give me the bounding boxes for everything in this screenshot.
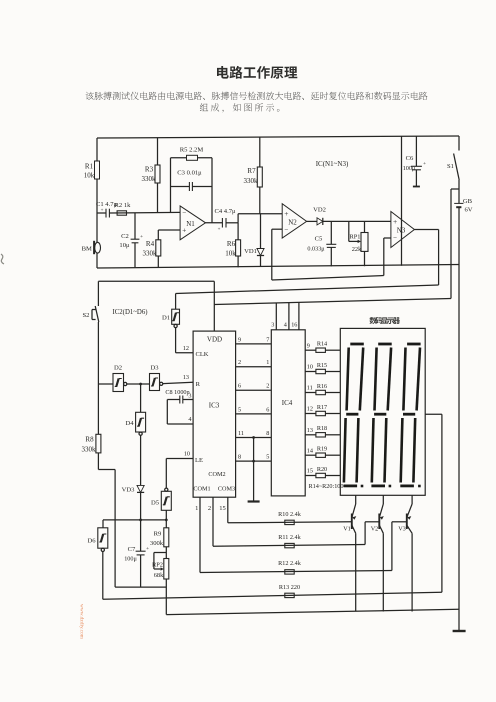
capacitor C5 bbox=[307, 221, 336, 266]
svg-text:LE: LE bbox=[195, 457, 203, 464]
svg-text:C6: C6 bbox=[406, 155, 414, 162]
potentiometer RP1 bbox=[349, 221, 368, 266]
svg-text:C2: C2 bbox=[121, 233, 129, 240]
svg-text:300k: 300k bbox=[150, 540, 164, 547]
svg-text:10: 10 bbox=[307, 364, 313, 371]
display digit 3 bbox=[400, 344, 420, 486]
svg-text:R14~R20:100: R14~R20:100 bbox=[309, 483, 344, 490]
svg-text:RP1: RP1 bbox=[349, 234, 360, 241]
svg-text:15: 15 bbox=[307, 468, 313, 475]
svg-text:RP2: RP2 bbox=[152, 562, 163, 569]
diode VD3 bbox=[122, 435, 145, 520]
supply vertical line bbox=[401, 137, 403, 266]
resistor R3 bbox=[142, 138, 161, 213]
svg-text:10μ: 10μ bbox=[119, 242, 130, 249]
resistor R20 bbox=[305, 475, 316, 477]
battery GB 6V bbox=[454, 198, 473, 214]
svg-text:100μ: 100μ bbox=[124, 556, 137, 563]
svg-text:IC3: IC3 bbox=[209, 402, 220, 410]
resistor R11 bbox=[285, 543, 294, 547]
resistor R17 bbox=[305, 413, 316, 415]
schmitt D2 bbox=[98, 365, 126, 392]
microphone HM bbox=[82, 241, 101, 254]
svg-text:V1: V1 bbox=[343, 526, 351, 533]
wire R8 bottom jog bbox=[98, 469, 115, 471]
svg-text:R7: R7 bbox=[247, 167, 256, 175]
svg-text:www.dzdiy.com: www.dzdiy.com bbox=[79, 604, 85, 640]
potentiometer RP2 bbox=[152, 553, 169, 615]
wire D2 to D3 bbox=[127, 383, 150, 385]
svg-text:GB: GB bbox=[463, 198, 473, 205]
wire D1 input bbox=[175, 294, 177, 310]
wire C8 loop to pin 4 bbox=[166, 400, 168, 425]
svg-text:+: + bbox=[140, 234, 143, 240]
svg-text:IC(N1~N3): IC(N1~N3) bbox=[316, 160, 349, 168]
svg-text:IC2(D1~D6): IC2(D1~D6) bbox=[112, 309, 147, 316]
svg-text:15: 15 bbox=[219, 505, 226, 512]
svg-text:D3: D3 bbox=[150, 365, 159, 372]
switch S2 bbox=[83, 281, 99, 322]
svg-text:R20: R20 bbox=[317, 466, 327, 473]
svg-text:+: + bbox=[101, 209, 104, 214]
wire display dp pin to R13 bbox=[425, 413, 442, 415]
svg-text:11: 11 bbox=[307, 385, 313, 392]
schmitt D5 bbox=[151, 488, 171, 510]
op-amp N2 bbox=[282, 204, 306, 238]
svg-text:R10 2.4k: R10 2.4k bbox=[278, 511, 302, 518]
svg-text:D1: D1 bbox=[162, 315, 170, 322]
resistor R2 bbox=[115, 202, 132, 215]
svg-text:2: 2 bbox=[208, 505, 211, 512]
svg-text:330k: 330k bbox=[143, 250, 158, 258]
svg-text:D4: D4 bbox=[125, 420, 134, 427]
svg-text:R1: R1 bbox=[85, 163, 94, 171]
svg-text:R8: R8 bbox=[85, 436, 94, 444]
capacitor C2 bbox=[119, 213, 143, 267]
svg-text:R4: R4 bbox=[146, 240, 155, 248]
wire N1 output bbox=[206, 222, 223, 224]
wire VD2 to N3 plus bbox=[323, 220, 391, 222]
svg-text:330k: 330k bbox=[82, 446, 97, 454]
diode VD1 bbox=[244, 214, 264, 267]
wire N3 minus vertical bbox=[383, 238, 385, 276]
svg-text:100μ: 100μ bbox=[403, 165, 416, 172]
wire right rail lower bbox=[458, 207, 460, 631]
wire D3 to R pin bbox=[163, 382, 193, 383]
svg-text:22k: 22k bbox=[352, 246, 362, 253]
transistor V2 bbox=[371, 495, 384, 611]
svg-text:3: 3 bbox=[271, 322, 274, 329]
svg-text:N1: N1 bbox=[186, 220, 195, 228]
svg-text:R13 220: R13 220 bbox=[279, 584, 300, 591]
capacitor C3 bbox=[171, 170, 213, 192]
svg-text:13: 13 bbox=[183, 374, 189, 381]
svg-text:13: 13 bbox=[307, 427, 313, 434]
schmitt D1 bbox=[162, 309, 180, 327]
svg-text:COM1: COM1 bbox=[193, 486, 210, 493]
wire top supply rail bbox=[97, 136, 459, 138]
svg-text:S2: S2 bbox=[83, 312, 90, 319]
wire feedback rail bbox=[272, 276, 384, 281]
display box 数码显示器 bbox=[340, 328, 425, 495]
IC IC4 bbox=[271, 330, 305, 496]
svg-text:−: − bbox=[393, 234, 397, 242]
svg-text:C3 0.01μ: C3 0.01μ bbox=[177, 170, 202, 177]
wire LE pin bbox=[166, 458, 193, 460]
svg-text:330k: 330k bbox=[142, 175, 157, 183]
svg-text:VD2: VD2 bbox=[313, 207, 326, 214]
resistor R10 bbox=[285, 520, 294, 524]
svg-text:R17: R17 bbox=[317, 404, 327, 411]
wire S1 to VDD rail bbox=[451, 188, 459, 190]
resistor R19 bbox=[305, 454, 316, 456]
svg-text:8: 8 bbox=[266, 430, 269, 437]
IC4 top pin 4 bbox=[288, 303, 290, 330]
svg-text:5: 5 bbox=[238, 406, 241, 413]
svg-text:R: R bbox=[196, 381, 201, 388]
resistor R6 bbox=[225, 223, 240, 267]
svg-text:D6: D6 bbox=[87, 538, 96, 545]
svg-text:COM3: COM3 bbox=[218, 486, 235, 493]
svg-text:4: 4 bbox=[188, 416, 191, 423]
wire N2 output bbox=[307, 220, 317, 222]
IC3 bottom pin 2 bbox=[212, 497, 214, 546]
IC4 top pin 16 bbox=[298, 302, 300, 329]
IC4 top pin 3 bbox=[275, 303, 277, 330]
ground IC3 pins 11 8 bbox=[252, 436, 255, 439]
wire R12 line bbox=[200, 571, 392, 573]
svg-text:10: 10 bbox=[184, 451, 190, 458]
IC3 bottom pin 1 bbox=[199, 497, 201, 572]
feedback loop wires bbox=[170, 158, 172, 212]
display digit 1 bbox=[344, 344, 364, 486]
wire N1 plus input bbox=[158, 229, 180, 231]
schmitt D3 bbox=[150, 365, 163, 391]
svg-text:N2: N2 bbox=[288, 219, 297, 227]
capacitor C6 bbox=[403, 137, 426, 187]
schmitt D4 bbox=[125, 384, 145, 435]
text dsp bbox=[370, 317, 401, 324]
svg-text:1: 1 bbox=[266, 359, 269, 366]
svg-text:D2: D2 bbox=[114, 365, 122, 372]
IC IC3 bbox=[193, 331, 236, 497]
wire C4 to N2 bbox=[226, 222, 238, 224]
op-amp N1 bbox=[180, 206, 205, 240]
wire VDD left branch bbox=[98, 280, 214, 282]
svg-text:R15: R15 bbox=[317, 362, 327, 369]
svg-text:CLK: CLK bbox=[196, 351, 209, 358]
wire IC3 pin 11 to IC4 pin 8 bbox=[236, 437, 272, 439]
svg-text:R3: R3 bbox=[145, 166, 154, 174]
svg-text:8: 8 bbox=[238, 454, 241, 461]
svg-text:D5: D5 bbox=[151, 500, 160, 507]
wire R8C7 junction line bbox=[115, 586, 166, 588]
resistor R14 bbox=[305, 349, 316, 351]
svg-text:R11 2.4k: R11 2.4k bbox=[278, 534, 301, 541]
diode VD2 bbox=[313, 207, 326, 226]
resistor R13 bbox=[285, 593, 294, 597]
wire R13 line bbox=[102, 552, 104, 600]
wire right rail upper bbox=[458, 180, 460, 203]
wire emitter ground rail bbox=[166, 609, 459, 614]
svg-text:330k: 330k bbox=[244, 177, 259, 185]
wire input line y=213 bbox=[97, 212, 106, 214]
svg-text:4: 4 bbox=[284, 322, 287, 329]
display dot 1 bbox=[361, 485, 364, 488]
svg-text:0.033μ: 0.033μ bbox=[307, 246, 325, 253]
svg-text:6: 6 bbox=[266, 406, 269, 413]
op-amp N3 bbox=[391, 212, 415, 248]
svg-text:−: − bbox=[182, 209, 186, 217]
svg-text:+: + bbox=[284, 209, 288, 218]
svg-text:+: + bbox=[218, 228, 221, 233]
capacitor C8 bbox=[165, 389, 189, 404]
display dot 2 bbox=[389, 485, 392, 488]
wire zero rail bbox=[97, 265, 459, 269]
wire R11 line bbox=[213, 545, 365, 547]
svg-text:C4 4.7μ: C4 4.7μ bbox=[214, 208, 236, 215]
svg-text:R2 1k: R2 1k bbox=[115, 202, 132, 209]
resistor R16 bbox=[305, 392, 316, 394]
wire N3 output loop to D1 bbox=[414, 229, 438, 231]
wire S2 down bbox=[97, 322, 99, 384]
text para1 bbox=[86, 92, 428, 100]
transistor V3 bbox=[398, 495, 412, 611]
resistor R1 bbox=[84, 161, 100, 180]
svg-text:16: 16 bbox=[291, 322, 297, 329]
wire IC3 pin 5 to IC4 pin 6 bbox=[236, 413, 272, 415]
svg-text:R9: R9 bbox=[154, 531, 162, 538]
svg-text:VDD: VDD bbox=[207, 336, 222, 344]
capacitor C1 bbox=[96, 201, 118, 218]
resistor R18 bbox=[305, 434, 316, 436]
transistor V1 bbox=[343, 495, 356, 611]
wire IC3 pin 8 to IC4 pin 5 bbox=[236, 460, 272, 462]
svg-text:7: 7 bbox=[266, 336, 269, 343]
svg-text:V3: V3 bbox=[398, 526, 406, 533]
svg-text:VD3: VD3 bbox=[122, 487, 136, 494]
svg-text:R18: R18 bbox=[317, 425, 327, 432]
svg-text:+: + bbox=[146, 546, 149, 552]
svg-text:−: − bbox=[284, 225, 288, 233]
svg-text:S1: S1 bbox=[447, 163, 454, 170]
display dot 3 bbox=[418, 485, 421, 488]
svg-text:+: + bbox=[423, 161, 426, 167]
capacitor C4 bbox=[214, 208, 236, 233]
svg-text:9: 9 bbox=[307, 342, 310, 349]
svg-text:C7: C7 bbox=[128, 546, 136, 553]
svg-text:9: 9 bbox=[238, 336, 241, 343]
ground main bbox=[453, 630, 466, 632]
svg-text:10k: 10k bbox=[225, 250, 236, 258]
svg-text:2: 2 bbox=[238, 359, 241, 366]
svg-text:11: 11 bbox=[238, 430, 244, 437]
resistor R4 bbox=[143, 230, 161, 267]
wire D1 output to CLK bbox=[175, 328, 177, 353]
svg-text:COM2: COM2 bbox=[208, 471, 225, 478]
svg-text:R14: R14 bbox=[317, 341, 327, 348]
scan artifact left edge bbox=[1, 254, 4, 264]
wire IC3 pin 2 to IC4 pin 1 bbox=[236, 366, 272, 368]
svg-text:R19: R19 bbox=[317, 446, 327, 453]
svg-text:6V: 6V bbox=[464, 207, 472, 214]
resistor R9 bbox=[150, 520, 169, 559]
svg-text:VD1: VD1 bbox=[244, 248, 257, 255]
wire N2 minus feedback bbox=[272, 228, 282, 230]
display digit 2 bbox=[371, 344, 391, 486]
resistor R5 bbox=[180, 147, 204, 161]
wire IC3 pin 9 to IC4 pin 7 bbox=[236, 343, 272, 345]
wire D5 bottom bbox=[165, 510, 167, 520]
svg-text:C8 1000p: C8 1000p bbox=[165, 389, 189, 396]
svg-text:6: 6 bbox=[238, 383, 241, 390]
wire left vertical bbox=[96, 138, 98, 268]
schmitt D6 bbox=[87, 520, 107, 552]
svg-text:1: 1 bbox=[195, 505, 198, 512]
svg-text:2: 2 bbox=[266, 383, 269, 390]
svg-text:12: 12 bbox=[307, 406, 313, 413]
svg-text:5: 5 bbox=[266, 454, 269, 461]
svg-text:R5 2.2M: R5 2.2M bbox=[180, 147, 204, 154]
wire delay node bbox=[103, 519, 166, 521]
capacitor C7 bbox=[124, 520, 149, 587]
svg-text:R12 2.4k: R12 2.4k bbox=[278, 560, 302, 567]
svg-text:V2: V2 bbox=[371, 526, 379, 533]
wire R10 line bbox=[228, 522, 352, 523]
svg-text:+: + bbox=[393, 217, 397, 226]
svg-text:10k: 10k bbox=[84, 172, 95, 180]
resistor R7 bbox=[244, 137, 263, 214]
svg-text:BM: BM bbox=[82, 246, 92, 253]
IC3 bottom pin 15 bbox=[227, 497, 229, 523]
svg-text:R6: R6 bbox=[227, 240, 236, 248]
svg-text:68k: 68k bbox=[154, 572, 164, 579]
svg-text:R16: R16 bbox=[317, 383, 327, 390]
wire IC3 pin 6 to IC4 pin 2 bbox=[236, 389, 272, 391]
text para2 bbox=[200, 103, 280, 112]
svg-text:IC4: IC4 bbox=[282, 399, 293, 407]
resistor R15 bbox=[305, 371, 316, 373]
svg-text:C5: C5 bbox=[315, 236, 323, 243]
resistor R12 bbox=[285, 570, 294, 574]
resistor R8 bbox=[82, 384, 101, 470]
svg-text:12: 12 bbox=[183, 345, 189, 352]
switch S1 bbox=[447, 136, 459, 180]
text title bbox=[217, 66, 297, 79]
svg-text:14: 14 bbox=[307, 447, 313, 454]
